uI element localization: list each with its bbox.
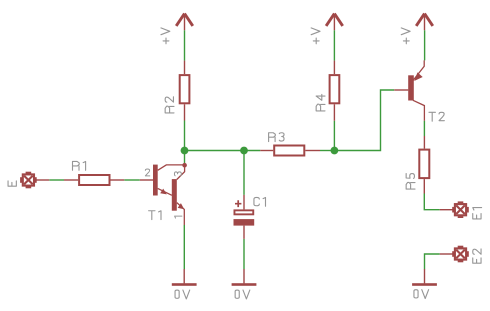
wire +V to T2 emitter (424, 30, 426, 60)
power symbol +V (over T2) (416, 14, 433, 31)
wire +V to R2 (184, 30, 186, 60)
power symbol +V (over R4) (326, 14, 343, 31)
wire node B to C1 (243, 151, 245, 195)
wire R1 to T1 base (124, 179, 140, 181)
label T1 (149, 211, 161, 220)
label 0V (E2) (414, 290, 429, 299)
pad E (20, 172, 49, 189)
wire +V to R4 (333, 30, 335, 60)
node B junction (240, 147, 248, 155)
label R5 (406, 174, 415, 190)
label T2 (429, 112, 444, 121)
wire T2 collector to R5 (423, 121, 425, 136)
ground 0V (T1 emitter) (172, 269, 197, 286)
label 0V (T1 emitter) (175, 290, 190, 299)
label R1 (73, 161, 86, 170)
wire node A to T1 collector (184, 151, 186, 164)
wire node C to T2 base (334, 90, 394, 151)
resistor R5 (419, 136, 429, 194)
label +V (over R4) (311, 28, 320, 44)
label E (8, 181, 16, 186)
ground 0V (C1) (232, 269, 257, 286)
wire C1 to ground (243, 239, 245, 269)
resistor R2 (180, 61, 190, 121)
wire node B to R3 (244, 150, 260, 152)
wire R5 to E1 pad (424, 194, 439, 210)
label R3 (269, 133, 284, 142)
wire E2 pad to ground (425, 254, 440, 269)
pad E1 (440, 201, 469, 218)
label +V (over T2) (401, 28, 410, 44)
wire R2 to node A (184, 121, 186, 151)
label R4 (316, 94, 325, 111)
pad E2 (440, 246, 469, 263)
node A junction (181, 147, 189, 155)
transistor T2 (394, 60, 424, 120)
label R2 (165, 97, 174, 113)
wire R3 to node C (320, 150, 334, 152)
wire E pad to R1 (49, 179, 64, 181)
resistor R4 (330, 61, 340, 121)
resistor R3 (260, 146, 320, 156)
power symbol +V (over R2) (176, 14, 193, 31)
transistor T1 (140, 163, 187, 225)
label 0V (C1) (235, 290, 250, 299)
label C1 (254, 197, 266, 206)
pin 1 label T1 emitter (175, 216, 182, 218)
label E2 (473, 249, 481, 263)
wire R4 to node C (333, 121, 335, 151)
wire node A to node B (185, 150, 245, 152)
label +V (over R2) (161, 28, 170, 44)
capacitor C1 (234, 195, 255, 239)
pin 3 label T1 collector (174, 172, 181, 176)
label E1 (473, 208, 482, 219)
node C junction (331, 147, 339, 155)
pin 2 label T1 base (145, 169, 149, 176)
resistor R1 (64, 175, 124, 185)
ground 0V (E2) (412, 269, 437, 286)
wire T1 emitter to ground (183, 225, 185, 269)
